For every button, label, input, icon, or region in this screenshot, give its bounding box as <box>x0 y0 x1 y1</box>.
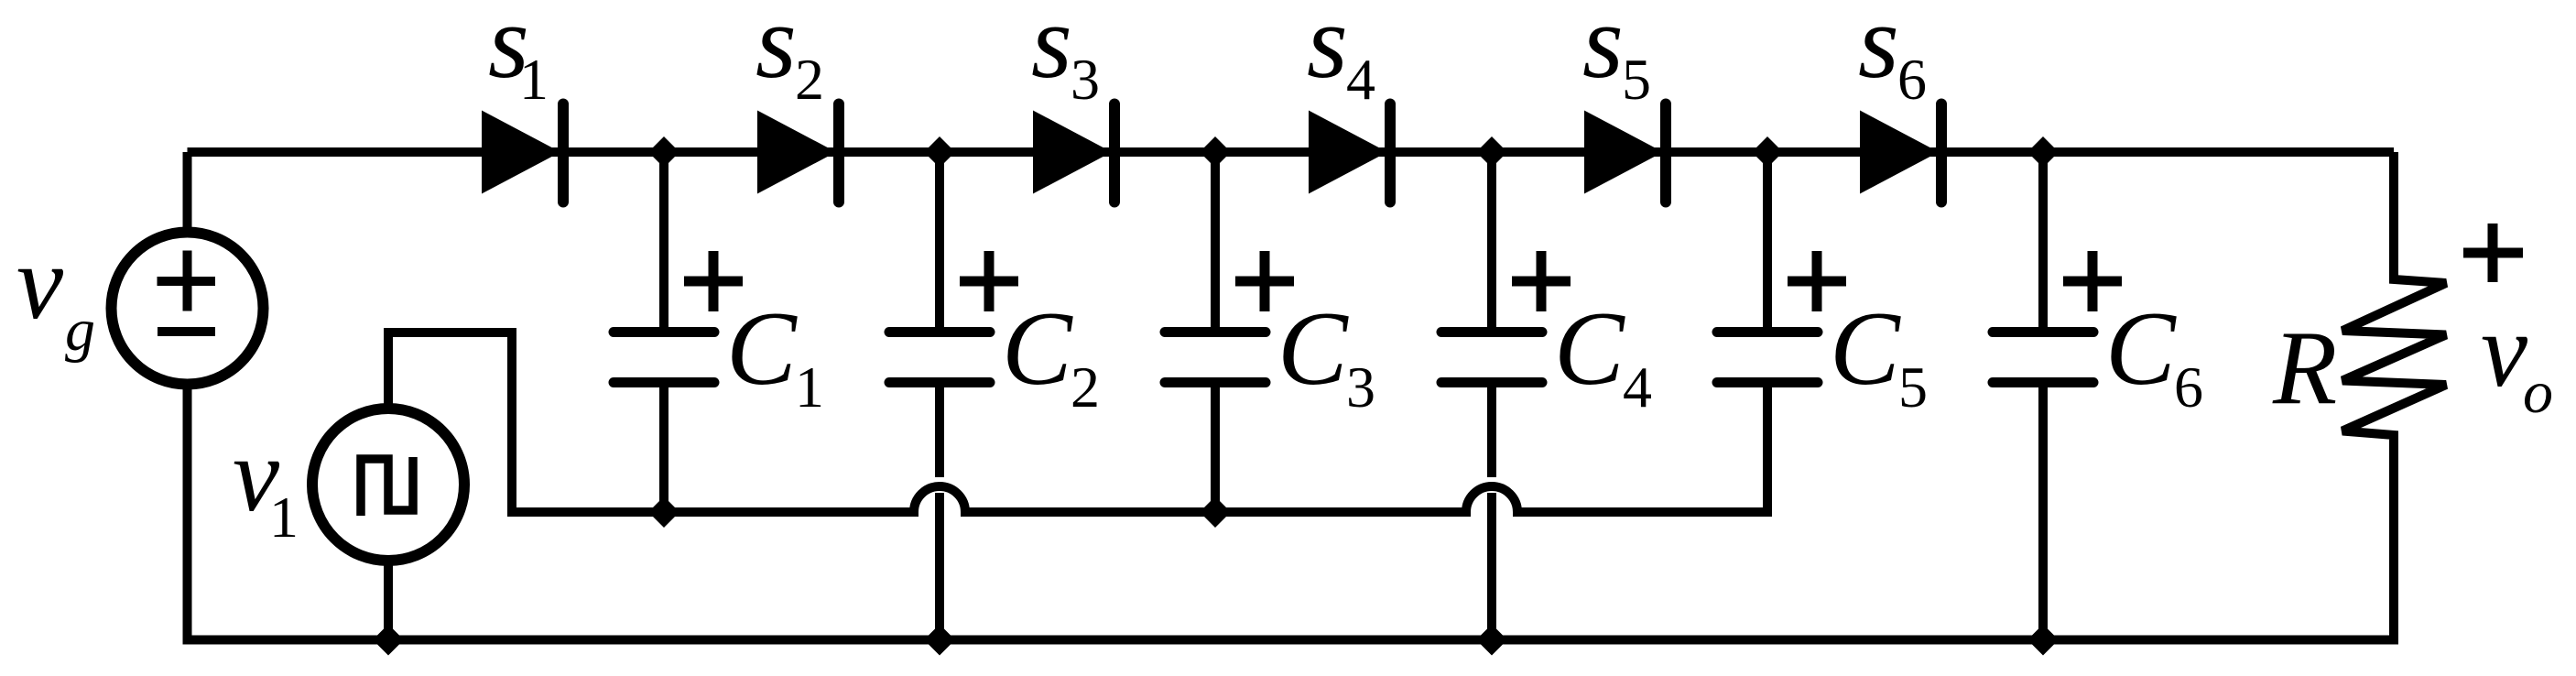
svg-text:5: 5 <box>1898 354 1928 420</box>
svg-text:v: v <box>16 224 64 341</box>
polarity + of C6 <box>2063 251 2122 311</box>
svg-text:R: R <box>2272 310 2337 426</box>
svg-text:C: C <box>1554 290 1625 407</box>
svg-text:4: 4 <box>1623 354 1652 420</box>
diode S4 <box>1309 104 1390 202</box>
node bottom rail at v1 <box>373 625 404 656</box>
svg-text:6: 6 <box>1897 47 1927 112</box>
svg-text:3: 3 <box>1071 47 1100 112</box>
wire vg bottom lead <box>183 382 192 640</box>
node middle rail at C3 <box>1200 496 1231 528</box>
diode S6 <box>1860 104 1941 202</box>
polarity + of C1 <box>684 251 743 311</box>
polarity + of C4 <box>1512 251 1571 311</box>
wire C1 bottom to middle rail <box>659 383 668 513</box>
voltage source vg <box>112 233 264 385</box>
svg-text:C: C <box>726 290 798 407</box>
node middle rail at C1 <box>648 496 679 528</box>
svg-text:2: 2 <box>1071 354 1100 420</box>
wire C6 bottom to bottom rail <box>2038 383 2048 640</box>
capacitor C4 <box>1441 152 1542 383</box>
diode S2 <box>757 104 839 202</box>
svg-text:C: C <box>1277 290 1349 407</box>
svg-text:4: 4 <box>1346 47 1375 112</box>
wire C3 bottom to middle rail <box>1211 383 1220 513</box>
svg-text:v: v <box>2481 292 2528 409</box>
svg-text:s: s <box>1582 0 1624 100</box>
wire middle clock rail with crossover hops, to C5 bottom <box>507 383 1767 513</box>
svg-text:g: g <box>65 297 95 364</box>
svg-text:s: s <box>1307 0 1348 100</box>
voltage source v1 <box>312 409 464 561</box>
svg-text:6: 6 <box>2174 354 2203 420</box>
node top rail at C5 <box>1752 136 1783 168</box>
capacitor C2 <box>889 152 990 383</box>
diode S5 <box>1584 104 1666 202</box>
diode S1 <box>482 104 563 202</box>
node bottom rail at C4 <box>1476 625 1507 656</box>
svg-text:3: 3 <box>1346 354 1375 420</box>
wire vg top lead <box>183 152 192 234</box>
node top rail at C1 <box>648 136 679 168</box>
resistor R with leads <box>2342 152 2446 645</box>
capacitor C6 <box>1993 152 2093 383</box>
polarity + of C2 <box>960 251 1018 311</box>
wire C2 bottom to bottom rail (crosses middle rail) <box>935 383 944 478</box>
node bottom rail at C6 <box>2027 625 2059 656</box>
node bottom rail at C2 <box>924 625 955 656</box>
wire v1 bottom lead <box>384 561 393 640</box>
svg-text:s: s <box>1858 0 1899 100</box>
capacitor C5 <box>1717 152 1818 383</box>
capacitor C3 <box>1165 152 1266 383</box>
svg-text:2: 2 <box>795 47 824 112</box>
polarity + of C3 <box>1235 251 1294 311</box>
node top rail at C6 <box>2027 136 2059 168</box>
svg-text:1: 1 <box>795 354 824 420</box>
capacitor C1 <box>614 152 714 383</box>
svg-text:5: 5 <box>1622 47 1651 112</box>
wire top rail <box>188 147 2395 157</box>
svg-text:1: 1 <box>269 485 299 550</box>
polarity + of C5 <box>1788 251 1846 311</box>
svg-text:C: C <box>2105 290 2177 407</box>
diode S3 <box>1033 104 1114 202</box>
polarity + of output <box>2463 224 2523 282</box>
svg-text:C: C <box>1830 290 1901 407</box>
wire C4 bottom to bottom rail (crosses middle rail) <box>1487 383 1496 478</box>
svg-text:s: s <box>755 0 797 100</box>
node top rail at C4 <box>1476 136 1507 168</box>
wire bottom rail <box>183 636 2399 645</box>
wire v1 top lead to middle rail <box>388 333 512 512</box>
svg-text:o: o <box>2523 359 2553 426</box>
svg-text:s: s <box>1031 0 1072 100</box>
svg-text:C: C <box>1002 290 1073 407</box>
node top rail at C2 <box>924 136 955 168</box>
svg-text:1: 1 <box>519 47 549 112</box>
node top rail at C3 <box>1200 136 1231 168</box>
